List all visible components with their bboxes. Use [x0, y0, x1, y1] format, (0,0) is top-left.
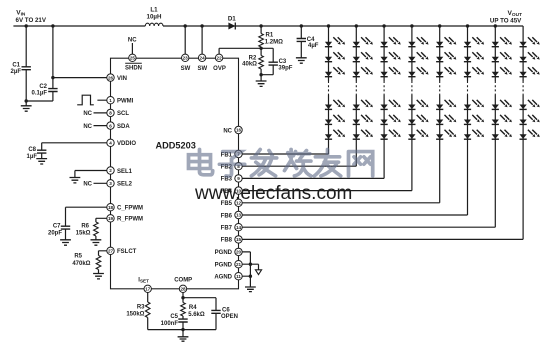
svg-text:6: 6 — [109, 123, 112, 128]
svg-text:ADD5203: ADD5203 — [156, 140, 196, 150]
svg-text:FB7: FB7 — [221, 226, 233, 232]
svg-text:R5: R5 — [74, 254, 82, 260]
svg-text:2: 2 — [109, 168, 112, 173]
svg-text:C1: C1 — [12, 62, 20, 68]
svg-text:PGND: PGND — [215, 250, 233, 256]
svg-text:17: 17 — [145, 287, 151, 292]
svg-text:SEL2: SEL2 — [117, 182, 133, 188]
svg-text:28: 28 — [180, 287, 186, 292]
svg-text:150kΩ: 150kΩ — [126, 311, 144, 317]
svg-text:AGND: AGND — [214, 275, 232, 281]
svg-text:D1: D1 — [228, 16, 236, 23]
svg-text:NC: NC — [83, 182, 92, 188]
svg-text:19: 19 — [108, 216, 114, 221]
svg-text:15kΩ: 15kΩ — [76, 231, 91, 237]
svg-text:R1: R1 — [266, 33, 274, 39]
svg-text:1: 1 — [109, 98, 112, 103]
svg-text:5.6kΩ: 5.6kΩ — [188, 312, 205, 318]
svg-text:OPEN: OPEN — [221, 314, 238, 320]
svg-text:C3: C3 — [279, 59, 287, 65]
svg-text:PWMI: PWMI — [117, 99, 134, 105]
svg-text:FB8: FB8 — [221, 238, 233, 244]
svg-text:11: 11 — [236, 274, 241, 279]
svg-text:VIN: VIN — [117, 76, 127, 82]
svg-text:23: 23 — [183, 56, 189, 61]
svg-text:ISET: ISET — [138, 278, 149, 284]
svg-text:4µF: 4µF — [308, 43, 319, 49]
svg-text:R_FPWM: R_FPWM — [117, 217, 143, 223]
svg-text:VDDIO: VDDIO — [117, 141, 136, 147]
svg-text:SDA: SDA — [117, 124, 130, 130]
svg-text:13: 13 — [236, 213, 242, 218]
svg-text:www.elecfans.com: www.elecfans.com — [194, 183, 352, 204]
svg-text:R3: R3 — [137, 305, 145, 311]
svg-text:25: 25 — [130, 56, 136, 61]
svg-text:R2: R2 — [249, 55, 257, 61]
svg-text:16: 16 — [236, 128, 242, 133]
svg-text:C2: C2 — [39, 84, 47, 90]
svg-text:24: 24 — [200, 56, 206, 61]
svg-text:C_FPWM: C_FPWM — [117, 206, 143, 212]
svg-text:9: 9 — [237, 176, 240, 181]
svg-text:20: 20 — [236, 250, 242, 255]
svg-text:R6: R6 — [81, 223, 89, 229]
svg-text:27: 27 — [108, 249, 114, 254]
svg-text:PGND: PGND — [215, 263, 233, 269]
svg-text:SCL: SCL — [117, 111, 129, 117]
svg-text:C4: C4 — [307, 37, 315, 43]
svg-text:470kΩ: 470kΩ — [72, 261, 90, 267]
svg-text:39pF: 39pF — [278, 66, 292, 72]
svg-text:NC: NC — [223, 128, 232, 134]
svg-text:SEL1: SEL1 — [117, 169, 133, 175]
svg-text:40kΩ: 40kΩ — [242, 62, 257, 68]
svg-text:6V TO 21V: 6V TO 21V — [16, 17, 47, 24]
svg-text:C8: C8 — [28, 147, 36, 153]
svg-text:2µF: 2µF — [11, 69, 22, 75]
svg-text:4: 4 — [109, 141, 112, 146]
svg-text:NC: NC — [83, 111, 92, 117]
svg-text:NC: NC — [128, 38, 137, 44]
svg-text:R4: R4 — [189, 305, 197, 311]
svg-text:21: 21 — [236, 262, 242, 267]
svg-text:20pF: 20pF — [48, 231, 62, 237]
svg-text:C7: C7 — [53, 223, 61, 229]
svg-text:22: 22 — [217, 56, 223, 61]
svg-text:10µH: 10µH — [147, 13, 162, 20]
svg-text:FB6: FB6 — [221, 213, 233, 219]
svg-text:18: 18 — [108, 205, 114, 210]
svg-text:3: 3 — [109, 181, 112, 186]
svg-text:COMP: COMP — [174, 278, 192, 284]
svg-text:UP TO 45V: UP TO 45V — [490, 17, 522, 24]
svg-text:C5: C5 — [170, 314, 178, 320]
svg-text:1.2MΩ: 1.2MΩ — [265, 39, 283, 45]
svg-text:0.1µF: 0.1µF — [32, 91, 48, 97]
svg-text:14: 14 — [236, 225, 242, 230]
svg-text:SW: SW — [197, 66, 207, 72]
svg-text:1µF: 1µF — [27, 154, 38, 160]
svg-text:L1: L1 — [150, 6, 158, 13]
svg-text:8: 8 — [109, 111, 112, 116]
svg-text:SHDN: SHDN — [125, 66, 142, 72]
svg-text:FSLCT: FSLCT — [117, 249, 137, 255]
svg-text:15: 15 — [236, 237, 242, 242]
svg-text:100nF: 100nF — [161, 321, 179, 327]
svg-text:C6: C6 — [222, 308, 230, 314]
svg-text:OVP: OVP — [213, 66, 226, 72]
svg-text:26: 26 — [108, 75, 114, 80]
svg-text:SW: SW — [181, 66, 191, 72]
svg-text:NC: NC — [83, 124, 92, 130]
